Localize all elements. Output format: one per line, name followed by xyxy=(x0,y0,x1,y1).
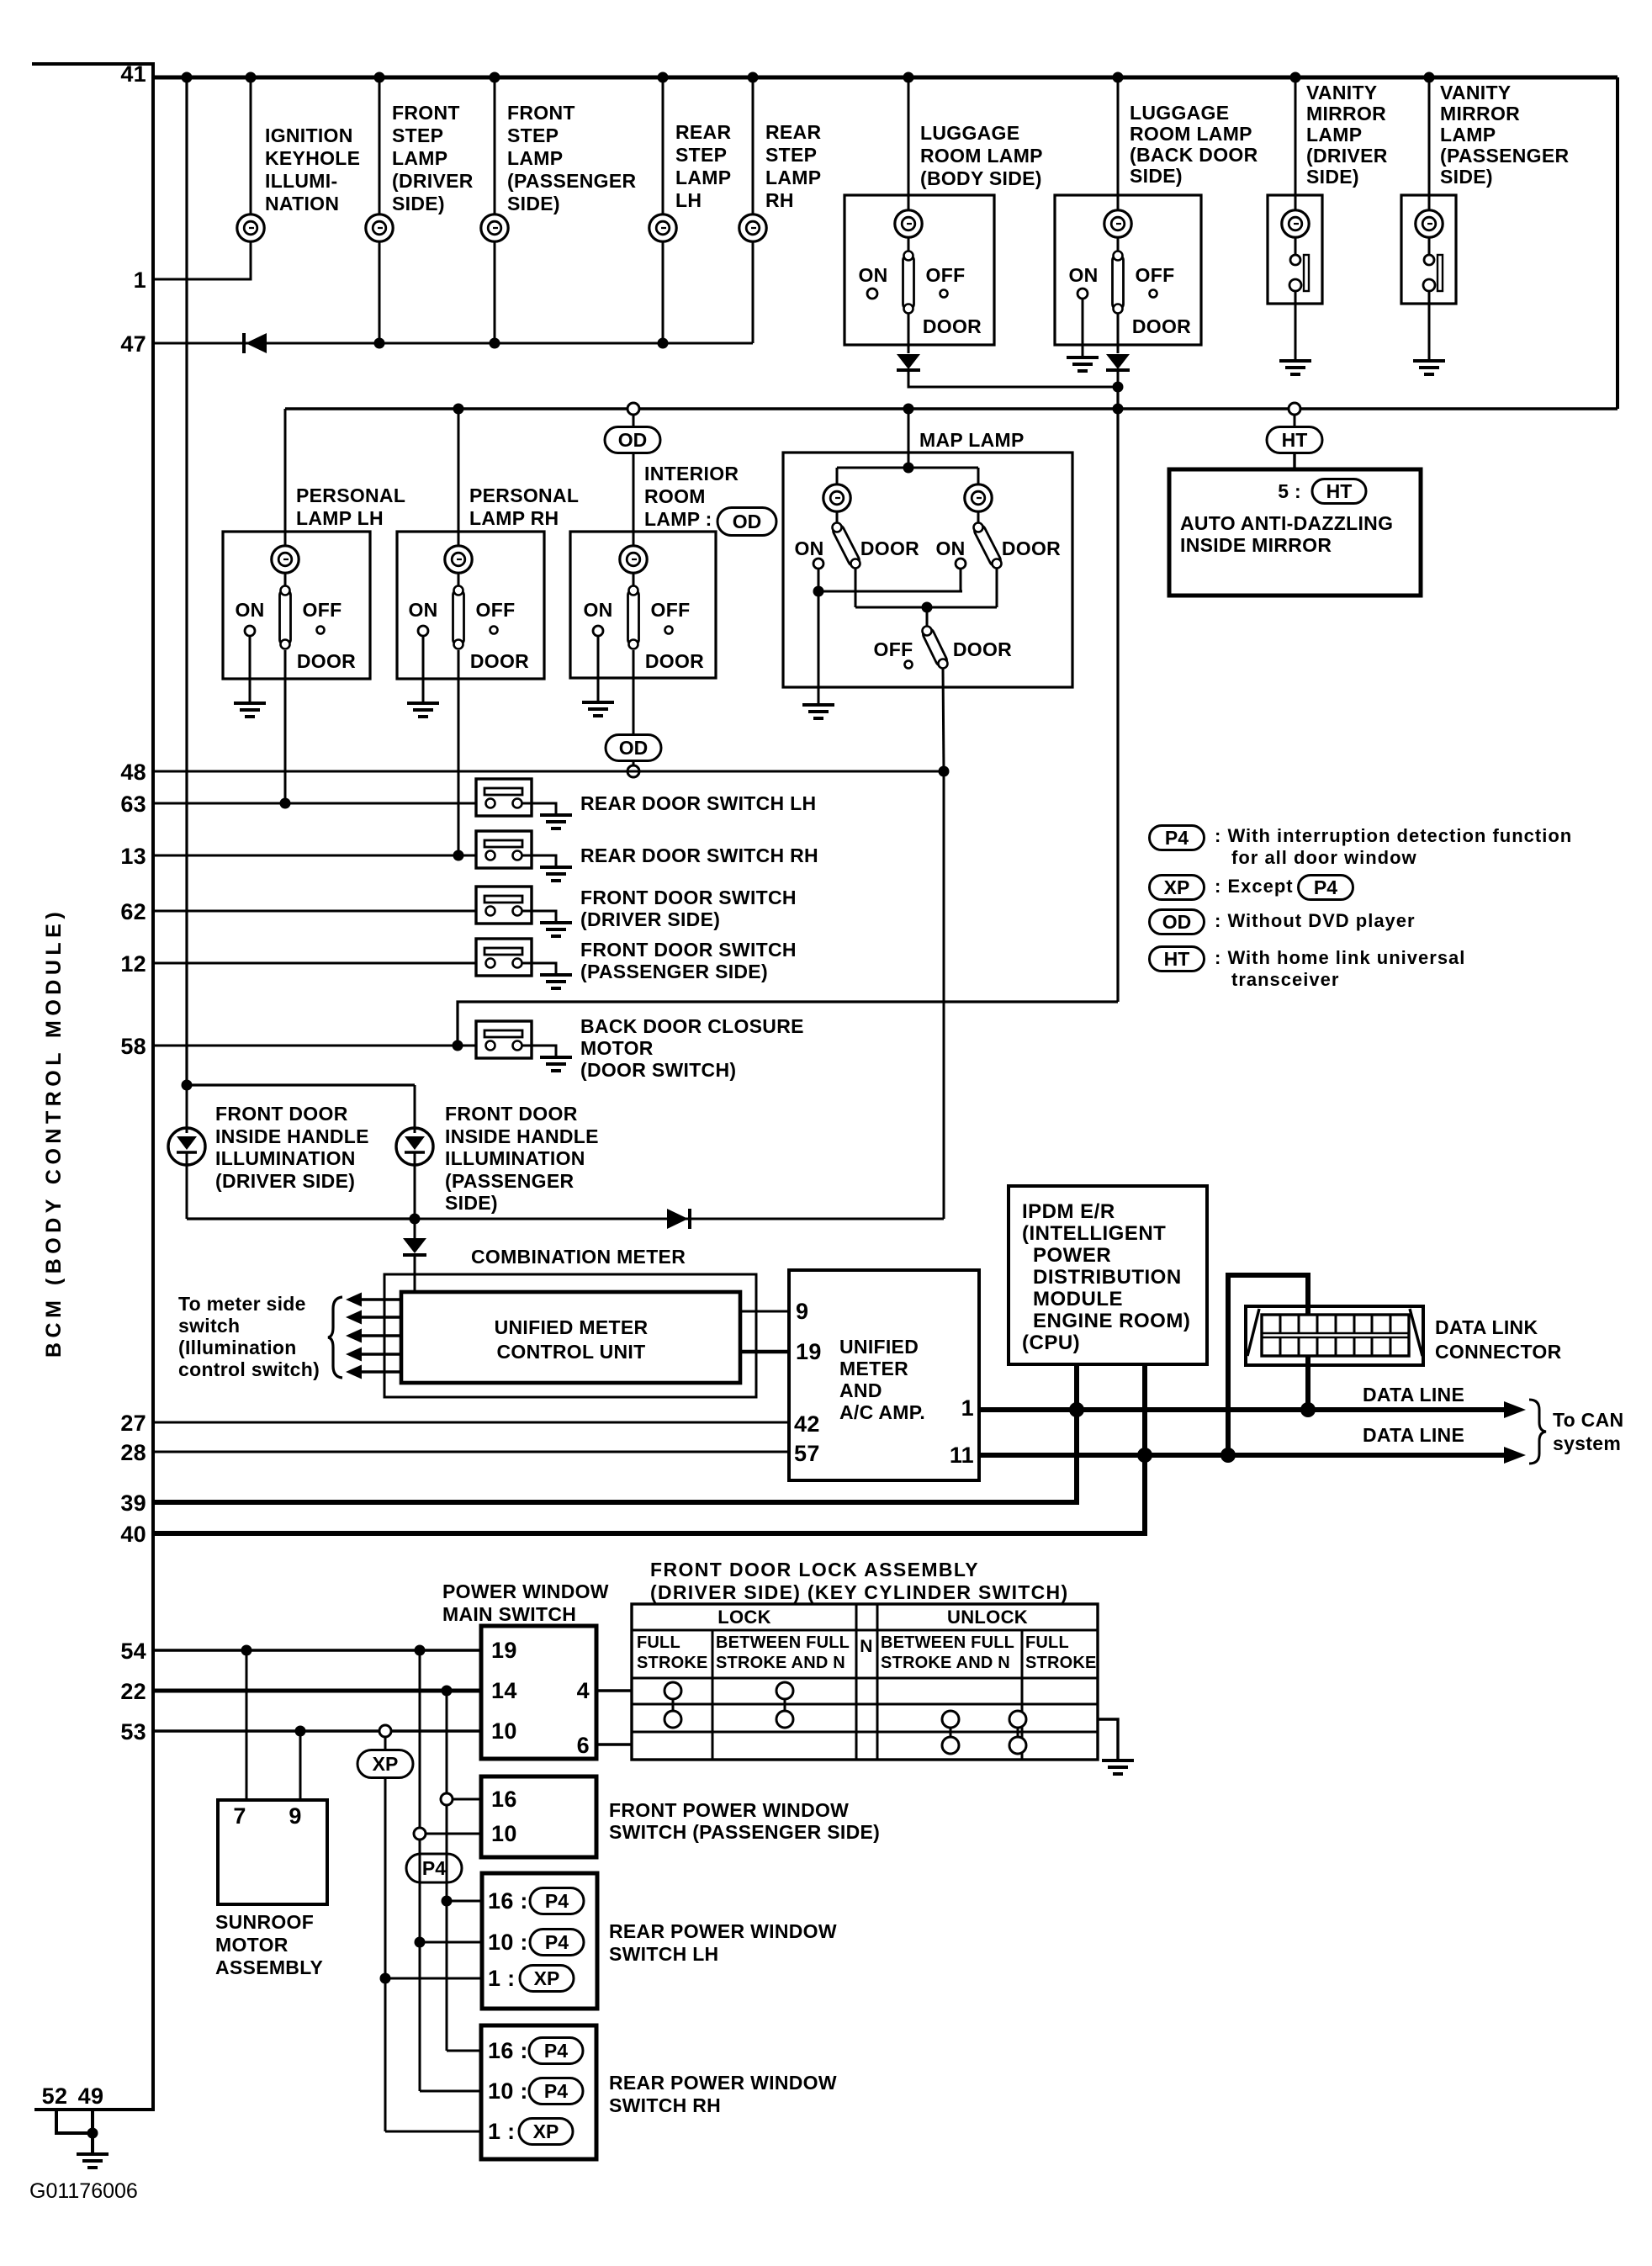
svg-text:OD: OD xyxy=(1162,911,1192,933)
lamp vanity mirror (driver side) xyxy=(1282,210,1309,237)
wire back door closure feed from luggage junction xyxy=(458,1002,1118,1046)
switch map lamp LH xyxy=(831,523,860,569)
map lamp box xyxy=(783,453,1072,687)
junction 58-line/back-door vertical xyxy=(453,1040,463,1051)
svg-text:COMBINATION METER: COMBINATION METER xyxy=(471,1246,686,1268)
svg-text:FRONT DOOR: FRONT DOOR xyxy=(215,1103,348,1125)
svg-text:(PASSENGER: (PASSENGER xyxy=(507,170,636,192)
wire pin 62 line xyxy=(153,910,486,913)
wire HT drop upper xyxy=(1294,415,1296,427)
tag P4 rear LH 10 xyxy=(530,1930,584,1956)
personal lamp RH OFF contact xyxy=(490,627,498,634)
svg-text:42: 42 xyxy=(794,1411,820,1437)
wire IPDM drop 2 xyxy=(1142,1364,1147,1455)
diode on handle output line xyxy=(667,1209,690,1229)
wire to LED passenger side xyxy=(414,1085,416,1128)
tag HT inside mirror box xyxy=(1312,479,1366,504)
ground front door lock assembly xyxy=(1102,1760,1134,1774)
svg-text:DATA LINK: DATA LINK xyxy=(1435,1316,1538,1338)
luggage back OFF contact xyxy=(1150,290,1157,298)
svg-text:MOTOR: MOTOR xyxy=(215,1934,289,1956)
svg-text:54: 54 xyxy=(120,1639,146,1664)
svg-text:LUGGAGE: LUGGAGE xyxy=(920,122,1019,144)
connector front PW pin 16 xyxy=(441,1793,453,1805)
wire map LH ON down xyxy=(818,569,820,591)
junction map ON bus/ground xyxy=(813,586,824,597)
lamp luggage room (back door side) xyxy=(1104,210,1131,237)
luggage body ON contact xyxy=(867,289,877,299)
wire to rear LH pin 10 xyxy=(420,1941,482,1944)
wire right edge down to interior bus xyxy=(1616,77,1619,409)
svg-text:: With home link universal: : With home link universal xyxy=(1215,947,1465,968)
vanity mirror lamp (passenger side) box xyxy=(1401,195,1456,304)
svg-text:HT: HT xyxy=(1326,480,1353,502)
svg-text:(BACK DOOR: (BACK DOOR xyxy=(1130,144,1258,166)
personal lamp RH ON contact xyxy=(418,626,428,636)
wire pin 27 line xyxy=(153,1422,789,1424)
vanity passenger upper contact xyxy=(1424,255,1434,265)
LED front door inside handle illumination (driver side) xyxy=(168,1128,205,1165)
junction rail/front step lamp passenger xyxy=(490,72,500,83)
svg-text:ILLUMINATION: ILLUMINATION xyxy=(445,1147,585,1169)
svg-text:XP: XP xyxy=(373,1753,399,1775)
vanity driver lower contact xyxy=(1289,279,1301,291)
svg-text:63: 63 xyxy=(120,792,146,817)
svg-text:53: 53 xyxy=(120,1719,146,1745)
personal lamp LH OFF contact xyxy=(317,627,325,634)
lamp rear step LH xyxy=(649,214,676,241)
wire handle loop top xyxy=(187,1083,415,1086)
svg-text:LAMP :: LAMP : xyxy=(644,508,712,530)
svg-text:(CPU): (CPU) xyxy=(1022,1332,1080,1354)
switch rear door RH xyxy=(476,831,556,868)
svg-text:FRONT DOOR SWITCH: FRONT DOOR SWITCH xyxy=(580,939,797,961)
wire personal lamp RH drop xyxy=(458,409,460,532)
svg-text:(DRIVER: (DRIVER xyxy=(1306,145,1388,167)
wire vanity passenger to ground xyxy=(1428,291,1431,360)
svg-text:FRONT: FRONT xyxy=(392,102,460,124)
svg-text:ILLUMI-: ILLUMI- xyxy=(265,170,337,192)
wire XP vertical to rear RH pin 1 xyxy=(385,2131,481,2133)
wire 54 vertical to rear RH pin 10 xyxy=(420,2090,481,2093)
svg-text:P4: P4 xyxy=(422,1857,446,1879)
svg-text:LAMP: LAMP xyxy=(1440,124,1496,146)
arrowhead 3 xyxy=(346,1329,362,1343)
wire map bulb LH feed xyxy=(836,468,839,485)
svg-text:DOOR: DOOR xyxy=(953,638,1012,660)
svg-text:14: 14 xyxy=(491,1678,517,1703)
map OFF contact xyxy=(905,661,913,669)
svg-text:52: 52 xyxy=(42,2083,68,2109)
svg-text:41: 41 xyxy=(120,61,146,87)
wire PW switch pin 6 to lock table xyxy=(596,1743,632,1745)
legend tag HT xyxy=(1150,947,1205,972)
svg-text:9: 9 xyxy=(289,1803,301,1829)
personal lamp RH ground xyxy=(407,703,439,717)
svg-text:OD: OD xyxy=(733,511,762,532)
legend tag P4 (except) xyxy=(1299,876,1353,900)
vanity driver upper contact xyxy=(1290,255,1300,265)
LED front door inside handle illumination (passenger side) xyxy=(396,1128,433,1165)
wire luggage body switch out xyxy=(908,314,910,353)
diode luggage body side xyxy=(897,354,920,370)
svg-text:ON: ON xyxy=(935,537,965,559)
arrowhead data line 2 xyxy=(1504,1447,1526,1464)
svg-text:OFF: OFF xyxy=(1136,264,1175,286)
svg-text:G01176006: G01176006 xyxy=(29,2179,138,2203)
svg-text:OFF: OFF xyxy=(476,599,516,621)
svg-text:DOOR: DOOR xyxy=(470,650,529,672)
personal lamp RH box xyxy=(397,532,544,679)
svg-text:REAR DOOR SWITCH LH: REAR DOOR SWITCH LH xyxy=(580,792,816,814)
wire LED driver out xyxy=(186,1165,188,1219)
wire 22 vertical to window switches xyxy=(446,1691,448,2051)
junction 54-line/sunroof xyxy=(241,1645,252,1656)
IPDM E/R box xyxy=(1009,1186,1207,1364)
wire 54 vertical to window switches xyxy=(419,1650,421,2091)
svg-text:PERSONAL: PERSONAL xyxy=(469,484,579,506)
junction pins 52/49 xyxy=(87,2128,98,2139)
wire map lamp out to 48 junction xyxy=(943,669,944,771)
wire interior room lamp drop lower xyxy=(633,453,635,532)
svg-text:MODULE: MODULE xyxy=(1033,1288,1123,1310)
svg-text:OD: OD xyxy=(619,737,649,759)
junction 63-line/personal LH xyxy=(280,798,291,809)
svg-text:system: system xyxy=(1553,1432,1621,1454)
wire meter arrow 3 xyxy=(359,1334,401,1337)
wire map lamp feed xyxy=(908,409,910,468)
lamp map LH xyxy=(823,484,850,511)
wire pin 40 line to data line 2 xyxy=(153,1455,1145,1533)
wire 53-line to sunroof pin 9 xyxy=(299,1731,302,1800)
luggage room lamp (body side) box xyxy=(845,195,994,345)
svg-text:P4: P4 xyxy=(1314,876,1337,898)
lamp front step (driver side) xyxy=(366,214,393,241)
svg-text:57: 57 xyxy=(794,1441,820,1466)
junction luggage diodes xyxy=(1113,382,1124,393)
wire data line 2 xyxy=(979,1453,1506,1458)
svg-text:16: 16 xyxy=(491,1787,517,1812)
wire pin 41 rail xyxy=(153,76,1618,80)
svg-text:XP: XP xyxy=(1164,876,1190,898)
wire personal RH to pin 13 line xyxy=(458,650,460,855)
wire vanity passenger internal xyxy=(1428,236,1431,255)
svg-text:(BODY SIDE): (BODY SIDE) xyxy=(920,167,1042,189)
svg-text:FRONT DOOR LOCK ASSEMBLY: FRONT DOOR LOCK ASSEMBLY xyxy=(650,1559,979,1580)
ground vanity driver xyxy=(1279,361,1311,374)
svg-text:58: 58 xyxy=(120,1034,146,1059)
wire to LED driver side xyxy=(186,1085,188,1128)
junction rail/luggage back door xyxy=(1113,72,1124,83)
svg-text:transceiver: transceiver xyxy=(1231,969,1339,990)
wire ignition keyhole to pin 1 xyxy=(153,241,251,279)
lamp front step (passenger side) xyxy=(481,214,508,241)
wire to front PW pin 16 xyxy=(453,1798,481,1801)
svg-text:BCM (BODY CONTROL MODULE): BCM (BODY CONTROL MODULE) xyxy=(42,908,66,1358)
personal lamp LH ON wire xyxy=(249,636,252,679)
svg-text:OD: OD xyxy=(618,429,648,451)
svg-text:DOOR: DOOR xyxy=(860,537,919,559)
svg-text:RH: RH xyxy=(765,189,794,211)
brace to CAN system xyxy=(1529,1400,1546,1464)
wire luggage back switch out xyxy=(1117,314,1120,353)
wire BCM boundary (left edge) xyxy=(32,64,153,2110)
svg-text:AUTO ANTI-DAZZLING: AUTO ANTI-DAZZLING xyxy=(1180,512,1393,534)
arrowhead data line 1 xyxy=(1504,1401,1526,1418)
wire front step lamp passenger drop xyxy=(494,77,496,215)
wire pin 39 line to data line 1 xyxy=(153,1410,1077,1502)
svg-text:ON: ON xyxy=(858,264,887,286)
wire personal lamp LH drop xyxy=(284,409,287,532)
svg-text:19: 19 xyxy=(491,1638,517,1663)
wire rear step lamp LH drop xyxy=(662,77,665,215)
svg-text:LAMP: LAMP xyxy=(507,147,563,169)
svg-text:BETWEEN FULL: BETWEEN FULL xyxy=(881,1633,1014,1652)
svg-text:IGNITION: IGNITION xyxy=(265,124,353,146)
wire pin 48 line xyxy=(153,770,944,773)
svg-text:9: 9 xyxy=(796,1299,808,1324)
junction map lamp feed split xyxy=(903,463,914,474)
svg-text:DOOR: DOOR xyxy=(645,650,704,672)
svg-text:FRONT: FRONT xyxy=(507,102,575,124)
wire interior room lamp to pin 48 line xyxy=(633,760,635,765)
svg-text:MIRROR: MIRROR xyxy=(1306,103,1386,124)
junction bus/luggage-backdoor vertical xyxy=(1113,404,1124,415)
wire vanity driver internal xyxy=(1295,236,1297,255)
tag P4 rear LH 16 xyxy=(530,1888,584,1914)
wire map output down to handle line xyxy=(943,771,945,1219)
svg-text:22: 22 xyxy=(120,1679,146,1704)
wire handle output to map junction xyxy=(415,1218,944,1220)
wire pin 13 line xyxy=(153,855,486,857)
diode to combination meter xyxy=(403,1238,426,1255)
svg-text:BETWEEN FULL: BETWEEN FULL xyxy=(716,1633,850,1652)
junction rail/front-door-handle feed xyxy=(182,72,193,83)
junction 47-line/rear step LH xyxy=(658,338,669,349)
svg-text:REAR: REAR xyxy=(675,121,731,143)
svg-text:VANITY: VANITY xyxy=(1440,82,1511,103)
svg-text:N: N xyxy=(860,1637,872,1656)
wire luggage body diode to junction xyxy=(908,372,1118,387)
svg-text:VANITY: VANITY xyxy=(1306,82,1377,103)
svg-text:1 :: 1 : xyxy=(488,1966,515,1991)
wire pin 58 line xyxy=(153,1045,486,1047)
svg-text:control switch): control switch) xyxy=(178,1358,320,1380)
vanity mirror lamp (driver side) box xyxy=(1268,195,1322,304)
personal lamp LH bulb feed xyxy=(284,532,287,547)
svg-text:SIDE): SIDE) xyxy=(507,193,560,214)
personal lamp RH wire bulb-switch xyxy=(458,572,460,590)
wire meter arrow 5 xyxy=(359,1370,401,1373)
wire handle loop bottom xyxy=(187,1217,415,1220)
interior room lamp wire bulb-switch xyxy=(633,572,635,590)
vanity passenger slider xyxy=(1438,255,1443,291)
switch rear door LH xyxy=(476,779,556,816)
svg-text:LAMP: LAMP xyxy=(392,147,447,169)
svg-text:ON: ON xyxy=(794,537,823,559)
svg-text:ON: ON xyxy=(408,599,437,621)
legend tag OD xyxy=(1150,910,1205,934)
svg-text:DOOR: DOOR xyxy=(1132,315,1191,337)
wire to rear LH pin 1 xyxy=(385,1977,482,1980)
personal lamp RH ON wire xyxy=(422,636,425,679)
front power window switch (passenger side) box xyxy=(481,1776,596,1857)
map RH ON contact xyxy=(956,559,966,569)
wire pin 52 stub xyxy=(56,2110,93,2133)
ground map lamp xyxy=(802,705,834,718)
junction rail/vanity passenger xyxy=(1424,72,1435,83)
svg-text:NATION: NATION xyxy=(265,193,339,214)
wire data link connector to data line xyxy=(1305,1356,1310,1410)
wire pin 54 line xyxy=(153,1649,481,1651)
svg-text:LH: LH xyxy=(675,189,702,211)
wire PW switch pin 4 to lock table xyxy=(596,1689,632,1692)
connector front PW pin 10 xyxy=(414,1828,426,1840)
svg-text:47: 47 xyxy=(120,331,146,357)
tag P4 rear RH 16 xyxy=(529,2038,583,2064)
connector bus/interior room lamp (OD) xyxy=(627,403,639,415)
personal lamp LH wire bulb-switch xyxy=(284,572,287,590)
svg-text:16 :: 16 : xyxy=(488,2038,528,2063)
svg-text:49: 49 xyxy=(78,2083,104,2109)
svg-text:OFF: OFF xyxy=(874,638,913,660)
svg-text:ENGINE ROOM): ENGINE ROOM) xyxy=(1033,1310,1190,1332)
svg-text:1 :: 1 : xyxy=(488,2119,515,2144)
junction XP vertical/rear LH pin 1 xyxy=(380,1973,391,1984)
switch front door passenger side ground xyxy=(540,975,572,988)
junction 48-line/map lamp output xyxy=(939,766,950,777)
svg-text:SIDE): SIDE) xyxy=(1130,165,1183,187)
legend tag P4 xyxy=(1150,826,1205,850)
wire interior lamp bus xyxy=(285,407,1618,410)
tag OD in interior room lamp label xyxy=(717,508,776,536)
interior room lamp bulb xyxy=(620,546,647,573)
svg-text:10: 10 xyxy=(491,1718,517,1744)
tag P4 rear RH 10 xyxy=(529,2078,583,2105)
svg-text:To meter side: To meter side xyxy=(178,1293,306,1315)
svg-text:MAP LAMP: MAP LAMP xyxy=(919,429,1025,451)
svg-text:10 :: 10 : xyxy=(488,1930,528,1955)
wire luggage back door drop xyxy=(1117,77,1120,210)
svg-text:(PASSENGER: (PASSENGER xyxy=(445,1170,574,1192)
wire rear step lamp RH drop xyxy=(752,77,755,215)
svg-text:UNLOCK: UNLOCK xyxy=(947,1607,1028,1628)
arrowhead 5 xyxy=(346,1365,362,1379)
luggage back ON contact xyxy=(1078,289,1088,299)
ground BCM pins 52/49 xyxy=(77,2154,109,2168)
svg-text:P4: P4 xyxy=(1165,827,1189,849)
svg-text:OFF: OFF xyxy=(303,599,342,621)
ground luggage back door ON xyxy=(1067,357,1099,371)
wire handle output down xyxy=(414,1219,416,1238)
svg-text:CONNECTOR: CONNECTOR xyxy=(1435,1341,1562,1363)
rear power window switch RH box xyxy=(481,2025,596,2159)
personal lamp LH switch xyxy=(280,586,291,649)
wire meter arrow 2 xyxy=(359,1316,401,1318)
wire vanity driver drop xyxy=(1295,77,1297,211)
tag XP rear LH 1 xyxy=(520,1966,574,1992)
svg-text:KEYHOLE: KEYHOLE xyxy=(265,147,360,169)
tag OD above interior room lamp xyxy=(605,427,660,453)
svg-text:ON: ON xyxy=(1068,264,1098,286)
interior room lamp ON contact xyxy=(593,626,603,636)
wire XP connector stem xyxy=(384,1737,387,1750)
svg-text:12: 12 xyxy=(120,951,146,977)
wire front step lamp driver drop xyxy=(379,77,381,215)
unified meter and A/C amp box xyxy=(789,1270,979,1480)
wire lock table to ground xyxy=(1098,1719,1118,1760)
wire meter pin 19 xyxy=(740,1350,789,1354)
switch front door driver side xyxy=(476,887,556,924)
svg-text:6: 6 xyxy=(577,1733,590,1758)
interior room lamp ON wire xyxy=(597,636,600,678)
svg-text:(PASSENGER SIDE): (PASSENGER SIDE) xyxy=(580,961,768,982)
svg-text:P4: P4 xyxy=(545,1890,569,1912)
svg-text:P4: P4 xyxy=(544,2040,568,2062)
svg-text:UNIFIED METER: UNIFIED METER xyxy=(495,1316,649,1338)
svg-text:SWITCH RH: SWITCH RH xyxy=(609,2094,721,2116)
svg-text:To CAN: To CAN xyxy=(1553,1409,1623,1431)
svg-text:XP: XP xyxy=(534,1967,560,1989)
svg-text:LOCK: LOCK xyxy=(717,1607,771,1628)
personal lamp LH bulb xyxy=(272,546,299,573)
svg-text:SWITCH (PASSENGER SIDE): SWITCH (PASSENGER SIDE) xyxy=(609,1821,880,1843)
interior room lamp ground xyxy=(582,702,614,716)
junction bus/map lamp xyxy=(903,404,914,415)
wire interior room lamp out xyxy=(633,650,635,735)
svg-text:: Without DVD player: : Without DVD player xyxy=(1215,910,1416,931)
junction rail/ignition keyhole xyxy=(246,72,257,83)
sunroof motor assembly box xyxy=(218,1800,327,1904)
svg-text:FRONT DOOR SWITCH: FRONT DOOR SWITCH xyxy=(580,887,797,908)
rear power window switch LH box xyxy=(482,1873,597,2009)
junction rail/vanity driver xyxy=(1290,72,1301,83)
wire meter arrow 4 xyxy=(359,1353,401,1355)
wire HT drop lower xyxy=(1293,453,1295,469)
wire luggage body side drop xyxy=(908,77,910,210)
switch luggage room lamp back door xyxy=(1113,251,1124,314)
wire into combination meter xyxy=(414,1256,416,1294)
switch front door driver side ground xyxy=(540,923,572,936)
connector 53-line XP variant xyxy=(379,1725,391,1737)
arrowhead 2 xyxy=(346,1310,362,1325)
wire pin 47 line xyxy=(153,342,753,345)
wire luggage back ON to ground xyxy=(1082,299,1084,357)
wire meter pin 9 xyxy=(740,1310,789,1313)
svg-text:(INTELLIGENT: (INTELLIGENT xyxy=(1022,1222,1166,1245)
lamp ignition keyhole illumination xyxy=(237,214,264,241)
wire map lamp top rail xyxy=(837,467,978,469)
wire IPDM drop 1 xyxy=(1074,1364,1079,1410)
svg-text:HT: HT xyxy=(1282,429,1308,451)
lock table contacts xyxy=(672,1699,675,1711)
junction data line 2/IPDM xyxy=(1137,1448,1152,1463)
wire pin 28 line xyxy=(153,1451,789,1453)
junction data line 1/IPDM xyxy=(1069,1402,1084,1417)
wire 22 vertical to rear RH pin 16 xyxy=(447,2050,481,2052)
junction rear LH pin 16 xyxy=(442,1896,453,1907)
personal lamp RH bulb feed xyxy=(458,532,460,547)
svg-text:INSIDE HANDLE: INSIDE HANDLE xyxy=(215,1125,369,1147)
junction data line 2/connector loop xyxy=(1220,1448,1236,1463)
svg-text:16 :: 16 : xyxy=(488,1888,528,1914)
wire data link connector loop xyxy=(1228,1275,1308,1455)
svg-text:ASSEMBLY: ASSEMBLY xyxy=(215,1956,323,1978)
wire map DOOR bus xyxy=(855,606,997,609)
junction 22-line/window switches xyxy=(442,1686,453,1697)
svg-text:LAMP: LAMP xyxy=(1306,124,1362,146)
svg-text:CONTROL UNIT: CONTROL UNIT xyxy=(497,1341,646,1363)
